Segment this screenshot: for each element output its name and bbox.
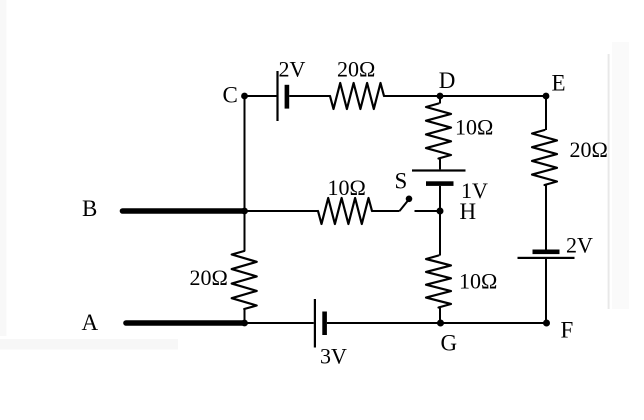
svg-text:10Ω: 10Ω [459,269,497,294]
wire [327,322,441,324]
node F [543,318,573,343]
resistor R5 10ohm (H-G branch) [426,256,497,308]
terminal B lead [82,196,245,221]
wire [439,308,441,324]
svg-text:10Ω: 10Ω [328,175,366,200]
page edge band bottom-left [0,339,178,350]
resistor R6 20ohm (right) [532,130,608,185]
node H [437,199,477,224]
switch S [395,169,413,212]
svg-text:20Ω: 20Ω [570,137,608,162]
node C [223,83,248,108]
container border line right [608,54,610,309]
wire [545,96,547,130]
svg-text:2V: 2V [279,57,306,82]
wire [245,210,319,212]
resistor R1 20ohm (top) [330,57,384,110]
svg-text:G: G [441,331,458,356]
resistor R3 10ohm (middle row) [318,175,372,224]
resistor R4 10ohm (D-H branch) [426,104,493,159]
wire [244,96,246,211]
wire [244,309,246,323]
scrollbar track right [612,42,629,309]
battery V3 3V (bottom) [314,299,347,369]
node B junction [241,208,248,215]
terminal A lead [82,310,245,335]
wire [439,159,441,170]
node G [437,320,457,356]
node E [543,71,566,100]
battery V4 2V (right) [518,233,594,260]
svg-text:1V: 1V [461,178,488,203]
wire [289,95,330,97]
wire [440,95,546,97]
svg-text:3V: 3V [320,344,347,369]
resistor R2 20ohm (left) [190,251,257,309]
wire [545,259,547,323]
wire [439,186,441,211]
battery V1 2V (top) [276,57,305,122]
wire [441,322,547,324]
battery V2 1V (D-H branch) [412,169,488,203]
wire [245,95,278,97]
wire [415,210,441,212]
page edge strip left [0,0,7,336]
svg-text:20Ω: 20Ω [337,57,375,82]
svg-text:B: B [82,196,97,221]
wire [244,211,246,251]
svg-text:E: E [552,71,566,96]
wire [439,96,441,104]
wire [545,185,547,250]
svg-text:10Ω: 10Ω [455,115,493,140]
svg-text:F: F [561,318,574,343]
svg-text:20Ω: 20Ω [190,265,228,290]
wire [245,322,314,324]
wire [372,210,400,212]
node A junction [241,320,248,327]
svg-text:D: D [439,68,456,93]
svg-text:2V: 2V [566,233,593,258]
svg-text:C: C [223,83,238,108]
wire [384,95,440,97]
svg-text:A: A [82,310,99,335]
node D [437,68,456,100]
wire [439,211,441,256]
svg-text:S: S [395,169,408,194]
